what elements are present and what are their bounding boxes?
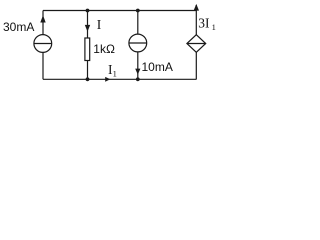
current source I1 30mA circle bbox=[34, 35, 52, 53]
svg-text:1kΩ: 1kΩ bbox=[93, 42, 115, 56]
junction dot resistor bottom bbox=[86, 77, 90, 81]
junction dot resistor top bbox=[86, 9, 90, 13]
current source 30mA bar bbox=[34, 43, 52, 45]
wire left branch upper bbox=[42, 11, 44, 35]
svg-text:3I: 3I bbox=[198, 16, 210, 31]
svg-text:10mA: 10mA bbox=[142, 60, 173, 74]
wire resistor branch upper bbox=[87, 11, 89, 39]
svg-text:30mA: 30mA bbox=[3, 20, 34, 34]
wire right branch lower bbox=[195, 52, 197, 79]
svg-text:1: 1 bbox=[113, 69, 117, 79]
resistor R 1kohm box bbox=[85, 38, 90, 61]
arrowhead 3I1 up bbox=[194, 4, 199, 11]
arrowhead 10mA down bbox=[135, 69, 140, 75]
wire resistor branch lower bbox=[87, 61, 89, 80]
current source I2 10mA circle bbox=[129, 34, 147, 52]
current source 10mA bar bbox=[129, 42, 147, 44]
junction dot 10mA bottom bbox=[136, 77, 140, 81]
wire top bbox=[43, 10, 197, 12]
arrowhead I1 right bbox=[105, 77, 110, 82]
dependent source bar bbox=[187, 43, 206, 45]
dependent source 3I1 diamond bbox=[187, 35, 206, 53]
arrowhead I down bbox=[85, 25, 90, 32]
wire left branch lower bbox=[42, 52, 44, 79]
wire 10mA branch lower bbox=[137, 52, 139, 79]
wire right branch upper bbox=[195, 5, 197, 35]
wire bottom bbox=[43, 78, 197, 80]
svg-text:I: I bbox=[97, 17, 102, 32]
svg-text:1: 1 bbox=[212, 22, 216, 32]
junction dot 10mA top bbox=[136, 9, 140, 13]
arrowhead 30mA up bbox=[40, 15, 45, 22]
wire 10mA branch upper bbox=[137, 11, 139, 35]
